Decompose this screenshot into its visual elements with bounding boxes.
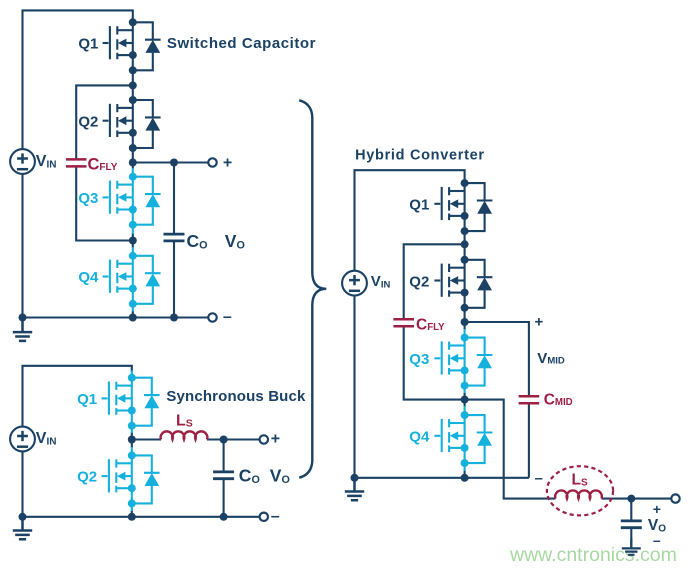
svg-text:–: – xyxy=(271,508,280,525)
wire Q3 return to mid node xyxy=(464,392,466,407)
svg-text:Q1: Q1 xyxy=(78,36,98,53)
svg-text:Q2: Q2 xyxy=(77,469,97,486)
wire Co branch column xyxy=(223,440,225,517)
terminal minus buck xyxy=(260,513,268,521)
svg-text:Q2: Q2 xyxy=(78,113,98,130)
wire top rail from Vin to Q1 drain xyxy=(23,366,132,427)
transistor Q4 xyxy=(103,252,161,308)
node Q4 source to ground rail xyxy=(129,314,137,322)
node Q3-Q4 junction (CFLY bottom) xyxy=(129,237,137,245)
svg-text:Synchronous Buck: Synchronous Buck xyxy=(166,388,306,405)
wire Q2 return to CFLY node xyxy=(132,148,134,169)
svg-text:CMID: CMID xyxy=(544,391,573,408)
capacitor CMID xyxy=(519,396,540,403)
svg-text:–: – xyxy=(653,532,661,548)
wire cyan stub Q4 return down xyxy=(132,304,134,312)
terminal plus xyxy=(208,158,216,166)
svg-text:Q3: Q3 xyxy=(409,351,429,368)
wire CFLY node to CMID top xyxy=(465,322,529,396)
svg-text:Q4: Q4 xyxy=(78,269,99,286)
svg-text:–: – xyxy=(223,309,232,326)
wire CFLY left branch hybrid xyxy=(404,244,465,399)
wire cyan stub above buck Q2 xyxy=(131,447,133,455)
wire Q2 return to CFLY node xyxy=(464,308,466,330)
wire cyan stub Q3 return down hybrid xyxy=(464,386,466,393)
node hybrid Vmid plus (CFLY node) xyxy=(461,318,469,326)
node buck Vin minus to ground xyxy=(19,513,27,521)
source VIN buck xyxy=(10,427,35,452)
terminal plus buck xyxy=(260,435,268,443)
wire cyan stub Q1 return down xyxy=(131,426,133,433)
transistor Q1 hybrid xyxy=(434,179,492,235)
wire top rail from Vin to Q1 drain xyxy=(355,170,465,271)
brace joining circuits xyxy=(299,100,326,477)
inductor Ls buck xyxy=(161,431,208,439)
svg-text:www.cntronics.com: www.cntronics.com xyxy=(509,544,677,566)
svg-text:VIN: VIN xyxy=(36,430,57,448)
wire Q4 return to bottom rail xyxy=(132,311,134,318)
wire cyan stub above Q3 hybrid xyxy=(464,329,466,338)
svg-text:LS: LS xyxy=(572,472,588,489)
svg-text:+: + xyxy=(653,501,661,517)
svg-text:Switched Capacitor: Switched Capacitor xyxy=(167,35,316,52)
wire bottom rail to minus terminal xyxy=(23,316,209,318)
wire Q1 return to switch node to Q2 drain xyxy=(131,432,133,448)
svg-text:+: + xyxy=(223,155,232,172)
wire cyan stub Q4 return down hybrid xyxy=(464,463,466,471)
svg-text:VIN: VIN xyxy=(371,273,391,291)
svg-text:Q4: Q4 xyxy=(409,429,430,446)
node buck Q2 source to rail xyxy=(128,513,136,521)
svg-text:Q2: Q2 xyxy=(409,273,429,290)
wire cyan stub Q3 return to mid xyxy=(132,225,134,234)
wire cyan stub above buck Q1 xyxy=(131,371,133,378)
ground buck xyxy=(13,517,32,539)
svg-text:VMID: VMID xyxy=(537,350,565,367)
wire inductor to plus terminal xyxy=(207,438,260,440)
node Q1-Q2 junction (CFLY top) xyxy=(129,81,137,89)
svg-text:CFLY: CFLY xyxy=(88,156,118,174)
wire Vin minus down to bottom rail xyxy=(21,451,23,517)
wire Q3 return to mid node to Q4 drain xyxy=(132,233,134,248)
node Co bottom junction xyxy=(170,314,178,322)
wire CFLY left branch through flying cap xyxy=(76,85,133,240)
svg-text:Q1: Q1 xyxy=(409,197,429,214)
terminal minus xyxy=(208,313,216,321)
svg-text:Q3: Q3 xyxy=(78,190,98,207)
source VIN hybrid xyxy=(342,271,367,296)
wire Vo cap branch xyxy=(630,499,632,547)
ground xyxy=(13,319,32,341)
wire Co branch column xyxy=(173,163,175,318)
svg-text:CO: CO xyxy=(239,466,260,486)
node hybrid Ls to Vo cap junction xyxy=(627,495,635,503)
node junction dots hybrid xyxy=(351,240,636,502)
transistor Q2 xyxy=(103,96,161,152)
ground hybrid xyxy=(345,478,364,500)
wire ground rail xyxy=(355,477,529,479)
wire Vin minus down to ground rail xyxy=(21,174,23,318)
wire cyan stub mid to Q4 drain xyxy=(132,247,134,256)
svg-text:+: + xyxy=(535,314,544,331)
inductor Ls hybrid xyxy=(555,490,602,498)
node hybrid Vin minus to ground xyxy=(351,474,359,482)
transistor Q3 xyxy=(103,173,161,229)
transistor Q3 hybrid xyxy=(434,334,492,390)
svg-text:+: + xyxy=(271,431,280,448)
transistor Q1 xyxy=(103,18,161,74)
wire switch node to inductor xyxy=(132,438,161,440)
wire plus node line to plus terminal xyxy=(133,161,209,163)
node buck Co bottom junction xyxy=(220,513,228,521)
svg-text:VO: VO xyxy=(225,231,245,251)
wire cyan stub above Q4 hybrid xyxy=(464,406,466,415)
node output plus (CFLY node) xyxy=(129,159,137,167)
wire Q4 return to ground rail xyxy=(464,470,466,478)
terminal output hybrid xyxy=(671,494,679,502)
ground Vo hybrid xyxy=(622,538,641,554)
capacitor Vo hybrid xyxy=(621,521,642,528)
svg-text:VIN: VIN xyxy=(36,153,57,171)
wire cyan stub Q2 return down xyxy=(131,503,133,511)
wire CMID bottom to ground rail xyxy=(528,403,530,478)
node junction dots buck xyxy=(19,436,228,521)
svg-text:Q1: Q1 xyxy=(77,391,97,408)
node Co top junction xyxy=(170,159,178,167)
capacitor CFLY hybrid xyxy=(393,319,414,326)
wire top rail from Vin to Q1 drain xyxy=(23,10,133,149)
wire Vin minus down to ground rail xyxy=(353,295,355,478)
dashed highlight ellipse around Ls xyxy=(547,466,613,515)
svg-text:VO: VO xyxy=(270,466,290,486)
node buck switch node xyxy=(128,436,136,444)
node Vin minus to ground xyxy=(19,314,27,322)
capacitor Co buck xyxy=(213,472,234,479)
capacitor Co xyxy=(164,234,185,241)
transistor Q1 buck xyxy=(102,374,160,430)
capacitor CFLY xyxy=(66,159,87,166)
svg-text:CO: CO xyxy=(187,231,208,251)
wire mid node to switch line to inductor xyxy=(465,400,556,499)
wire Q2 return to bottom rail xyxy=(131,510,133,517)
wire Q1 return to branch node to Q2 drain xyxy=(464,231,466,260)
wire Q1 source to Q2 drain xyxy=(132,70,134,100)
node hybrid Q3-Q4 junction (switch node) xyxy=(461,396,469,404)
svg-text:LS: LS xyxy=(176,413,193,430)
transistor Q4 hybrid xyxy=(434,411,492,467)
source VIN xyxy=(10,149,35,174)
svg-text:CFLY: CFLY xyxy=(416,317,445,334)
wire bottom rail to minus terminal xyxy=(23,516,260,518)
node hybrid Q1-Q2 junction (CFLY top) xyxy=(461,240,469,248)
node buck Ls to Co junction xyxy=(220,436,228,444)
svg-text:Hybrid Converter: Hybrid Converter xyxy=(355,148,485,164)
transistor Q2 buck xyxy=(102,451,160,507)
wire inductor to output terminal xyxy=(602,498,672,500)
transistor Q2 hybrid xyxy=(434,256,492,312)
node junction dots on column xyxy=(19,81,179,321)
wire cyan stub above Q3 xyxy=(132,168,134,177)
node hybrid Q4 source to ground rail xyxy=(461,474,469,482)
svg-text:–: – xyxy=(535,470,543,487)
